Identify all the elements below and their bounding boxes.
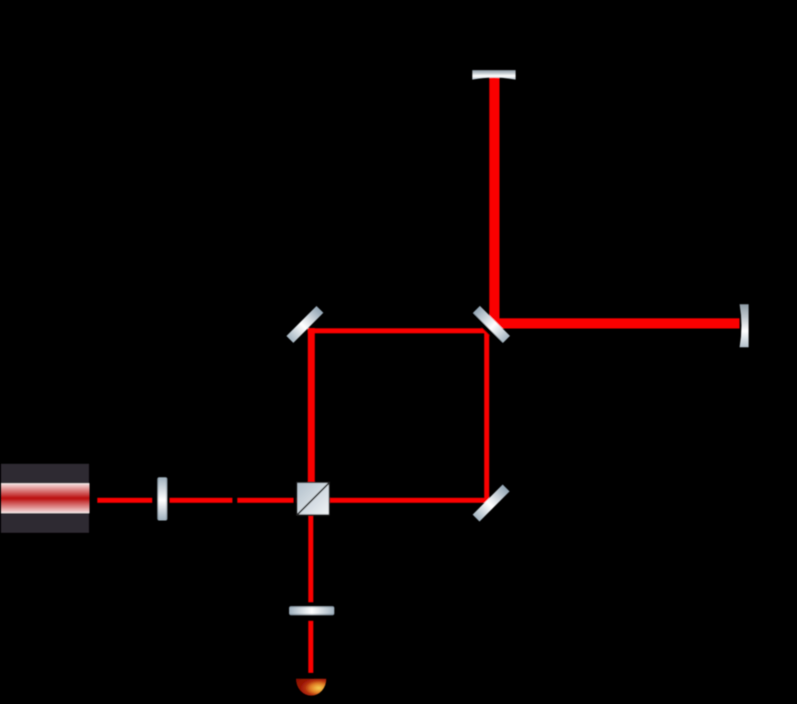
wire: thick horizontal beam (beamsplitter plate to right mirror) [490,318,740,328]
black gap band on lower-left side of beamsplitter plate BS2 [470,310,506,346]
mirror M4 (bottom-right steering mirror, 45deg) [473,485,510,522]
beamsplitter plate BS2 (top-right, 45deg) [473,306,510,343]
lens L1 (vertical, after laser) [157,477,167,520]
wire: output beam below lens L2 (to photodiode) [308,621,313,673]
wire: thick vertical beam (top mirror to beamsplitter plate) [489,77,499,323]
beamsplitter cube BS1 [297,482,330,515]
wire: cavity loop right vertical beam [484,328,489,503]
photodiode PD [296,679,326,696]
wire: dashed input beam segment 2 [170,498,233,503]
wire: dashed input beam segment 1 (laser to lens L1) [97,498,152,503]
mirror M3 (top-left steering mirror, 45deg) [286,306,323,343]
mirror M2 (right curved mirror) [740,304,749,347]
laser output window stripe [1,483,90,513]
wire: cavity loop left vertical beam [308,328,315,500]
wire: cavity loop top horizontal beam [308,328,489,333]
laser body [1,464,89,533]
mirror M1 (top curved mirror) [472,70,515,80]
wire: cavity loop bottom horizontal beam [296,498,489,503]
wire: output beam below cube (cube to lens L2) [308,516,313,602]
lens L2 (horizontal, before photodiode) [289,606,334,615]
wire: dashed input beam segment 3 (to beamsplitter cube) [237,498,293,503]
